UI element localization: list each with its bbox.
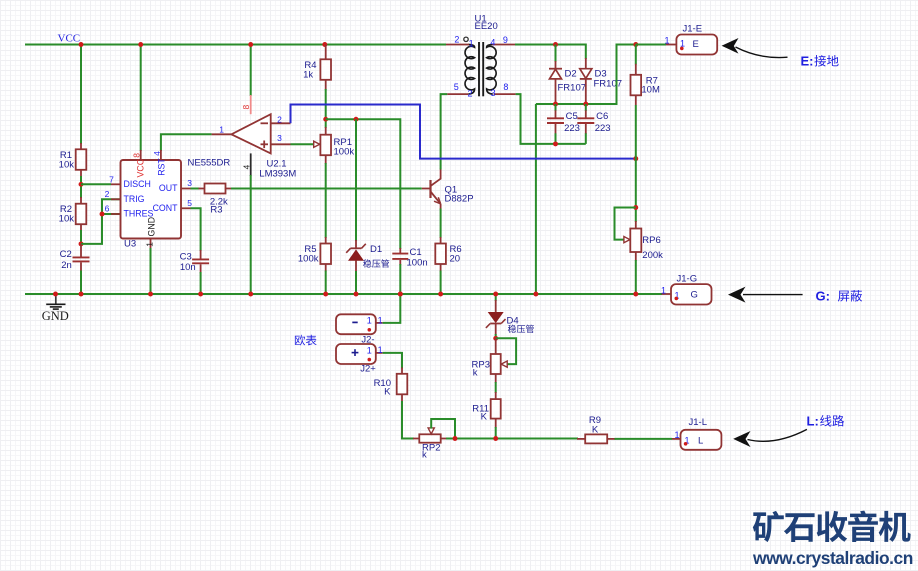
potentiometer RP6 200k bbox=[635, 221, 637, 229]
svg-text:2: 2 bbox=[467, 89, 472, 99]
svg-text:223: 223 bbox=[564, 123, 580, 134]
svg-text:J1-L: J1-L bbox=[689, 417, 707, 428]
wire RP2 wiper loop bbox=[431, 419, 455, 439]
transformer pin 3/8 bottom-right bbox=[494, 93, 516, 95]
annotation arrow L bbox=[733, 431, 750, 447]
svg-text:VCC: VCC bbox=[58, 32, 81, 44]
wire R9 to J1-L bbox=[615, 438, 673, 440]
svg-text:4: 4 bbox=[490, 38, 495, 48]
resistor R11 K bbox=[491, 399, 501, 419]
svg-text:TRIG: TRIG bbox=[124, 194, 145, 204]
svg-text:1: 1 bbox=[664, 36, 669, 46]
transformer pin 1 top-left bbox=[446, 44, 469, 46]
svg-text:NE555DR: NE555DR bbox=[188, 158, 231, 169]
wire J2+ to R10 bbox=[383, 353, 402, 369]
svg-text:20: 20 bbox=[450, 254, 461, 265]
connector J1-L bbox=[681, 430, 722, 450]
transformer secondary winding bbox=[487, 44, 497, 94]
potentiometer RP6 200k wiper loop bbox=[615, 208, 636, 240]
svg-text:www.crystalradio.cn: www.crystalradio.cn bbox=[752, 548, 913, 568]
svg-text:100k: 100k bbox=[334, 147, 355, 158]
potentiometer RP2 k bbox=[413, 438, 419, 440]
connector J2- bbox=[336, 314, 376, 334]
capacitor C3 bbox=[200, 250, 202, 259]
zener diode D4 bbox=[495, 294, 497, 301]
diode D2 FR107 bbox=[555, 45, 557, 63]
555 pin 1 GND bbox=[150, 239, 152, 250]
svg-text:R3: R3 bbox=[210, 204, 222, 215]
resistor R1 bbox=[80, 45, 82, 145]
U2 pin 1 output bbox=[212, 133, 232, 135]
svg-text:8: 8 bbox=[503, 82, 508, 92]
wire GND rail bbox=[25, 293, 662, 295]
svg-text:k: k bbox=[473, 368, 478, 379]
connector J1-E bbox=[636, 44, 666, 46]
svg-text:223: 223 bbox=[595, 123, 611, 134]
wire RP3 to R11 bbox=[495, 374, 497, 383]
555 pin 4 RST wire from U2 pin1 bbox=[161, 134, 212, 151]
svg-text:6: 6 bbox=[105, 204, 110, 214]
svg-text:5: 5 bbox=[454, 82, 459, 92]
op-amp U2.1 LM393M bbox=[231, 114, 270, 153]
potentiometer RP1 100k bbox=[325, 127, 327, 135]
wire R3 to Q1 base bbox=[225, 188, 232, 190]
transformer core bbox=[478, 42, 480, 96]
diode D3 FR107 bbox=[585, 58, 587, 69]
svg-text:CONT: CONT bbox=[153, 203, 179, 213]
wire R2-C2 node bbox=[80, 224, 82, 231]
svg-text:D1: D1 bbox=[370, 244, 382, 255]
svg-text:VCC: VCC bbox=[136, 158, 146, 177]
wire R4 to RP1 node bbox=[325, 89, 327, 128]
svg-text:2: 2 bbox=[105, 189, 110, 199]
svg-text:100n: 100n bbox=[407, 258, 428, 269]
connector J2+ bbox=[336, 344, 376, 364]
svg-text:E: E bbox=[693, 39, 699, 50]
U2 pin 8 V+ bbox=[250, 45, 252, 97]
svg-text:10M: 10M bbox=[641, 85, 660, 96]
svg-text:C5: C5 bbox=[566, 111, 578, 122]
wire DISCH bbox=[81, 183, 111, 185]
svg-text:FR107: FR107 bbox=[594, 79, 623, 90]
wire D4 to RP3 node bbox=[493, 336, 498, 341]
wire RP2 to L line bbox=[446, 438, 578, 440]
resistor R9 K bbox=[577, 438, 586, 440]
wire transformer pin9 to E rail bbox=[515, 45, 586, 60]
svg-text:GND: GND bbox=[147, 217, 157, 237]
watermark 矿石收音机 bbox=[753, 511, 911, 542]
svg-text:3: 3 bbox=[187, 178, 192, 188]
wire J2- to GND rail bbox=[383, 294, 401, 323]
svg-text:10n: 10n bbox=[180, 262, 196, 273]
svg-text:C1: C1 bbox=[410, 247, 422, 258]
svg-text:G: G bbox=[691, 290, 698, 301]
svg-text:2n: 2n bbox=[61, 260, 72, 271]
transformer pin 9 top-right bbox=[492, 44, 515, 46]
svg-text:5: 5 bbox=[187, 198, 192, 208]
svg-text:E:: E: bbox=[801, 54, 814, 69]
wire U2 pin2 feedback (blue) bbox=[291, 105, 636, 159]
svg-text:GND: GND bbox=[42, 309, 69, 323]
svg-text:RST: RST bbox=[156, 158, 166, 176]
svg-text:1: 1 bbox=[144, 242, 154, 247]
wire R1-R2 / DISCH node bbox=[80, 170, 82, 177]
svg-text:1: 1 bbox=[219, 125, 224, 135]
resistor R4 1k bbox=[322, 42, 327, 47]
svg-text:C6: C6 bbox=[596, 111, 608, 122]
junction on GND rail at ground symbol bbox=[53, 292, 58, 297]
resistor R7 10M bbox=[635, 45, 637, 65]
wire transformer pin8 to C5/C6 bottom bbox=[516, 94, 586, 144]
U2 pin 4 V- bbox=[250, 153, 252, 176]
wire U2 pin3 to RP1 wiper bbox=[291, 143, 315, 145]
svg-text:D882P: D882P bbox=[445, 194, 474, 205]
svg-text:DISCH: DISCH bbox=[124, 179, 151, 189]
U2 pin 3 non-inverting input bbox=[271, 143, 291, 145]
svg-text:9: 9 bbox=[503, 35, 508, 45]
svg-text:1: 1 bbox=[378, 316, 383, 326]
svg-text:1k: 1k bbox=[303, 69, 313, 80]
svg-text:J1-E: J1-E bbox=[683, 24, 703, 35]
svg-text:K: K bbox=[592, 425, 599, 436]
svg-text:2: 2 bbox=[454, 35, 459, 45]
U2 pin 2 inverting input bbox=[271, 122, 291, 124]
svg-text:1: 1 bbox=[661, 285, 666, 295]
svg-text:1: 1 bbox=[469, 38, 474, 48]
resistor R6 20 bbox=[435, 244, 446, 265]
svg-text:200k: 200k bbox=[642, 250, 663, 261]
svg-text:J1-G: J1-G bbox=[677, 274, 698, 285]
svg-text:7: 7 bbox=[109, 174, 114, 184]
svg-text:2: 2 bbox=[277, 114, 282, 124]
svg-text:C2: C2 bbox=[60, 249, 72, 260]
transformer pin 5 bottom-left bbox=[447, 93, 468, 95]
wire VCC rail bbox=[25, 44, 446, 46]
svg-text:L:: L: bbox=[807, 414, 819, 429]
wire bus to GND rail bbox=[535, 104, 537, 294]
annotation arrow G bbox=[728, 287, 746, 303]
svg-text:k: k bbox=[422, 449, 427, 460]
svg-text:FR107: FR107 bbox=[558, 83, 587, 94]
wire Q1 collector to transformer pin 2 bbox=[440, 169, 442, 180]
connector J1-G bbox=[662, 293, 671, 295]
wire RP1 to R5 bbox=[325, 163, 327, 238]
wire R7 to RP6 bbox=[635, 105, 637, 222]
capacitor C2 bbox=[80, 244, 82, 257]
annotation 欧表 bbox=[295, 335, 317, 346]
555 pin 8 VCC bbox=[140, 45, 142, 152]
svg-text:G:: G: bbox=[816, 289, 830, 304]
svg-text:1: 1 bbox=[367, 316, 372, 326]
transistor Q1 D882P bbox=[421, 188, 423, 190]
resistor R5 100k bbox=[320, 244, 331, 265]
svg-text:RP6: RP6 bbox=[642, 235, 660, 246]
capacitor C5 223 bbox=[555, 104, 557, 111]
svg-text:U3: U3 bbox=[124, 239, 136, 250]
svg-text:8: 8 bbox=[241, 105, 251, 110]
wire node to D1/C1 top rail bbox=[326, 119, 401, 249]
wire TRIG/THRES link bbox=[81, 199, 121, 244]
potentiometer RP3 k bbox=[495, 338, 497, 355]
wire CONT to C3 bbox=[181, 207, 191, 209]
annotation arrow E bbox=[722, 38, 739, 54]
svg-text:4: 4 bbox=[241, 165, 251, 170]
svg-text:C3: C3 bbox=[180, 252, 192, 263]
svg-text:1: 1 bbox=[674, 430, 679, 440]
svg-text:3: 3 bbox=[277, 133, 282, 143]
zener diode D1 bbox=[355, 119, 357, 241]
resistor R2 bbox=[76, 204, 87, 225]
ground symbol bbox=[55, 294, 57, 304]
capacitor C6 223 bbox=[585, 104, 587, 111]
svg-text:3: 3 bbox=[491, 88, 496, 98]
svg-text:K: K bbox=[481, 412, 488, 423]
svg-text:LM393M: LM393M bbox=[259, 169, 296, 180]
wire D2/D3 cathode bus bbox=[536, 45, 661, 105]
svg-text:10k: 10k bbox=[59, 214, 75, 225]
wire Q1 emitter to R6 bbox=[440, 204, 442, 210]
svg-text:1: 1 bbox=[367, 345, 372, 355]
svg-text:4: 4 bbox=[152, 151, 162, 156]
svg-text:1: 1 bbox=[378, 345, 383, 355]
resistor R3 2.2k bbox=[205, 184, 226, 194]
resistor R10 K bbox=[397, 374, 408, 395]
svg-text:10k: 10k bbox=[59, 160, 75, 171]
svg-text:J2+: J2+ bbox=[360, 363, 376, 374]
svg-text:L: L bbox=[698, 436, 703, 447]
svg-text:100k: 100k bbox=[298, 254, 319, 265]
svg-text:8: 8 bbox=[132, 153, 142, 158]
wire OUT to R3 bbox=[181, 188, 191, 190]
wire R10 to RP2 bbox=[401, 394, 403, 402]
svg-text:D2: D2 bbox=[565, 69, 577, 80]
svg-text:EE20: EE20 bbox=[475, 21, 498, 32]
IC U3 NE555DR body bbox=[121, 160, 182, 239]
svg-text:K: K bbox=[384, 387, 391, 398]
svg-text:OUT: OUT bbox=[159, 183, 178, 193]
capacitor C1 100n bbox=[399, 248, 401, 254]
